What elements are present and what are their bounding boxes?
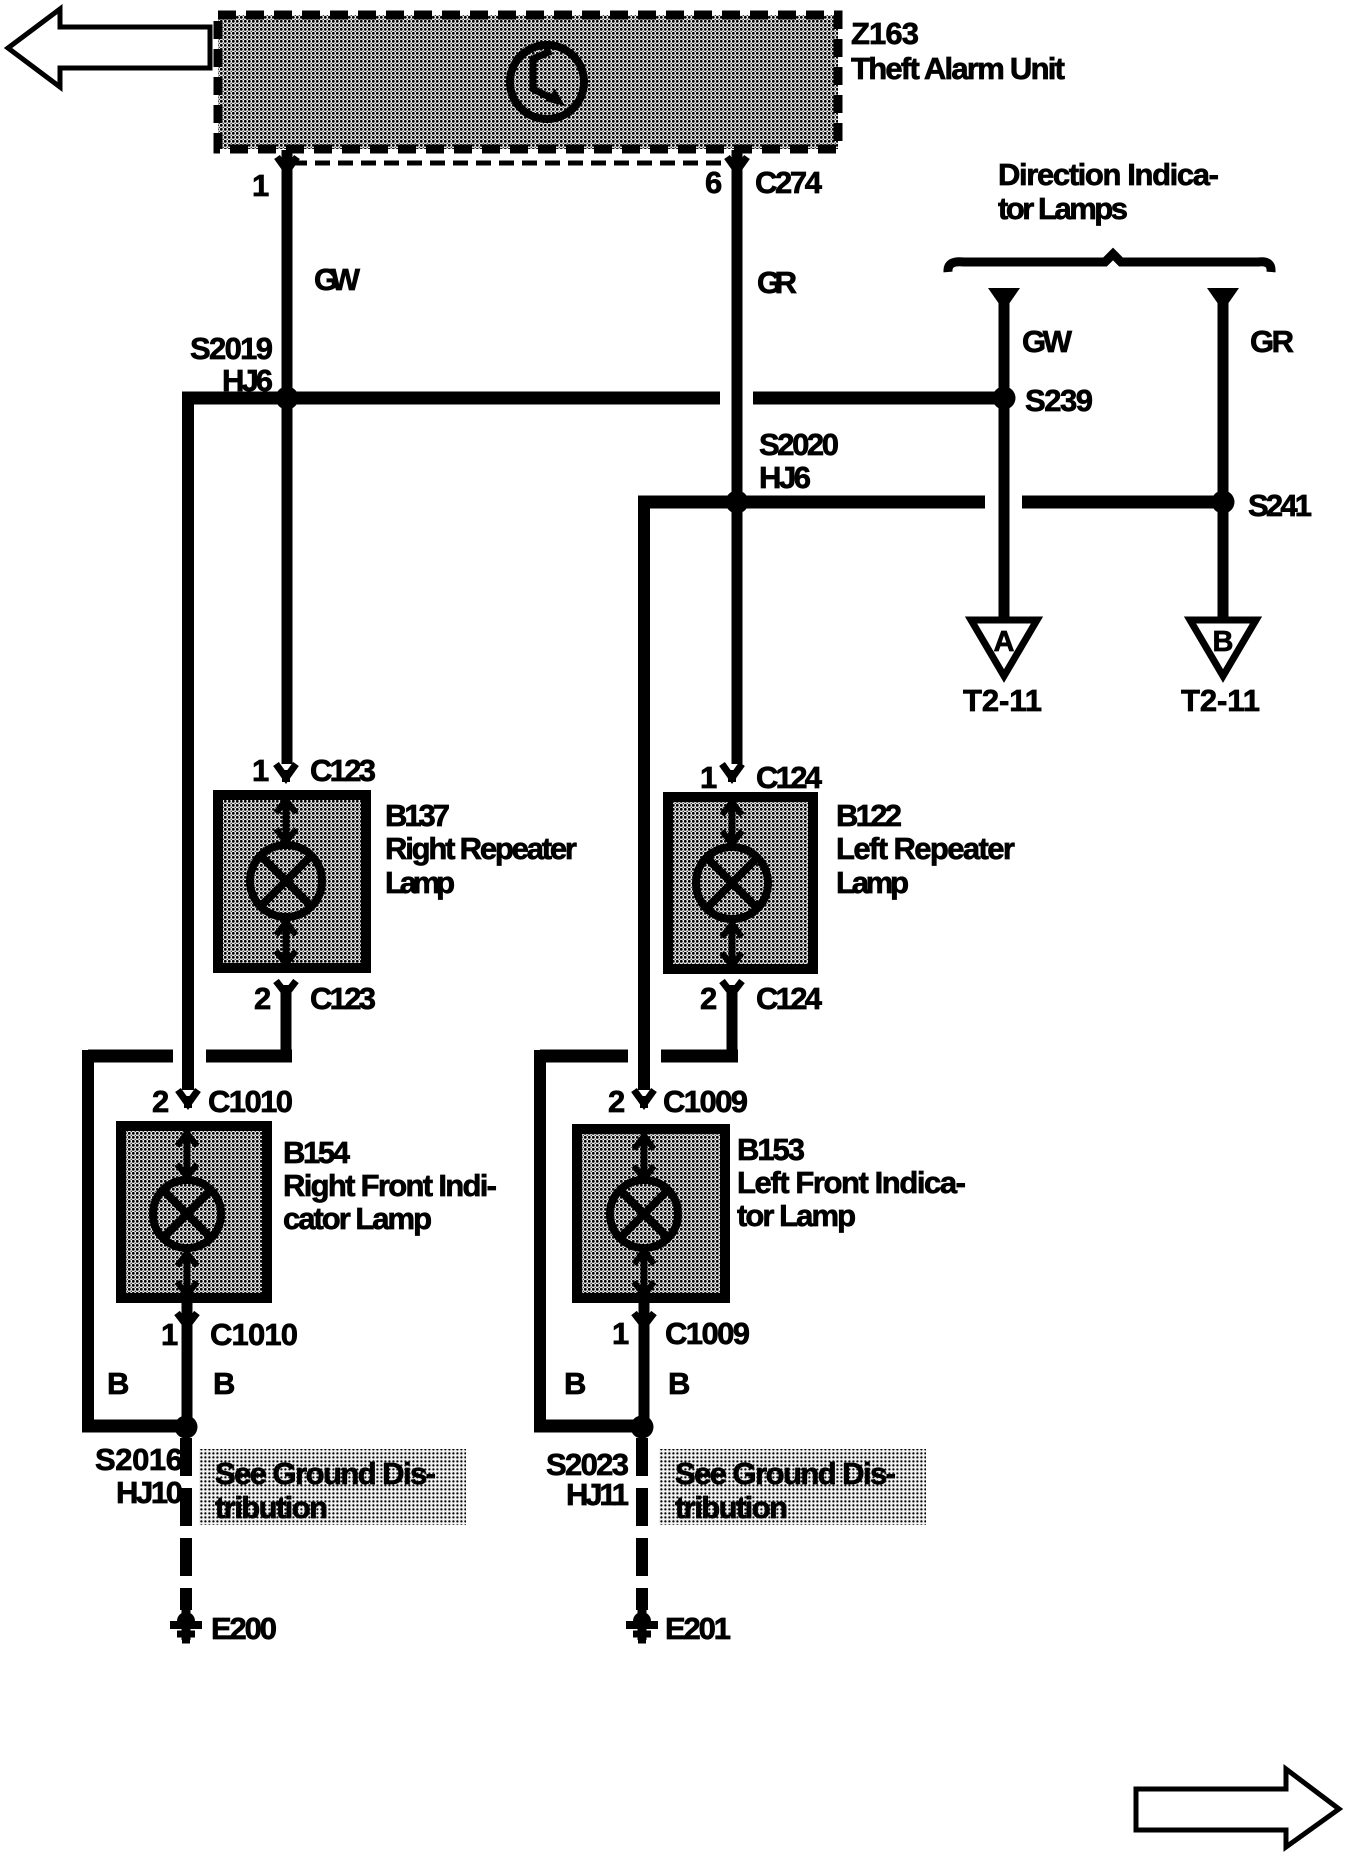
svg-text:Lamp: Lamp [836, 865, 909, 900]
svg-text:B: B [1213, 626, 1234, 658]
svg-text:Left Front Indica-: Left Front Indica- [737, 1165, 966, 1200]
svg-text:See Ground Dis-: See Ground Dis- [675, 1456, 896, 1491]
flasher symbol U (circle) inside Z163 [510, 45, 584, 119]
svg-text:GW: GW [1022, 324, 1073, 359]
B154 internal lead bottom [184, 1248, 191, 1298]
connector T2-11 A triangle [971, 620, 1037, 676]
lamp B154 box [121, 1126, 267, 1298]
connector C1009 pin 1 fork [634, 1313, 654, 1326]
svg-text:1: 1 [252, 168, 269, 203]
svg-text:B: B [213, 1366, 235, 1401]
svg-text:E201: E201 [665, 1611, 731, 1646]
B154 internal lead top [184, 1126, 191, 1180]
feed arrowhead GW (right) [988, 288, 1020, 311]
svg-text:1: 1 [252, 753, 269, 788]
connector C124 pin 1 end chevron [722, 764, 742, 778]
wire B122 return drop [534, 1050, 546, 1426]
wire splice run S2019 to S239 (left segment) [182, 392, 720, 405]
wire B137 return run left (right segment) [206, 1050, 292, 1063]
B122 internal lead bottom [729, 919, 736, 969]
svg-text:S2016: S2016 [95, 1442, 183, 1477]
dashed wire HJ10 to ground [180, 1438, 192, 1610]
wire from B153 pin 1 to S2023 [639, 1298, 650, 1426]
B137 internal lead bottom [283, 917, 290, 968]
svg-text:C274: C274 [755, 165, 823, 200]
connector C274 pin 1 fork [277, 157, 297, 171]
svg-text:cator Lamp: cator Lamp [283, 1201, 432, 1236]
ground E201 symbol [633, 1612, 651, 1630]
svg-text:1: 1 [700, 760, 717, 795]
svg-text:GR: GR [757, 265, 797, 300]
ground E200 symbol [177, 1612, 195, 1630]
svg-text:C124: C124 [756, 760, 823, 795]
svg-text:C1009: C1009 [665, 1316, 750, 1351]
svg-text:C1010: C1010 [208, 1084, 293, 1119]
connector C274 pin 6 fork [727, 157, 747, 171]
wire GW from Z163 pin 1 [282, 150, 293, 764]
splice S2019 junction dot [276, 387, 299, 410]
svg-text:Z163: Z163 [851, 16, 919, 51]
wire GR from Z163 pin 6 [732, 150, 743, 764]
B137 bulb symbol [250, 845, 322, 917]
wire drop from S2019 to B154 pin 2 [182, 392, 194, 1090]
lamp B153 box [577, 1129, 725, 1298]
B122 internal lead top [729, 797, 736, 847]
feed arrowhead GR (right) [1207, 288, 1239, 311]
svg-text:2: 2 [700, 981, 717, 1016]
svg-text:2: 2 [608, 1084, 625, 1119]
see ground distribution note (right) [659, 1449, 926, 1525]
svg-text:E200: E200 [211, 1611, 277, 1646]
svg-text:B: B [668, 1366, 690, 1401]
theft alarm unit Z163 dashed box [218, 15, 838, 149]
wire drop from S2020 to B153 pin 2 [638, 496, 650, 1090]
svg-text:B154: B154 [283, 1135, 351, 1170]
connector T2-11 B triangle [1190, 620, 1256, 676]
svg-text:B137: B137 [385, 798, 450, 833]
svg-text:S2020: S2020 [759, 427, 839, 462]
svg-text:Theft Alarm Unit: Theft Alarm Unit [851, 51, 1065, 86]
svg-text:1: 1 [612, 1316, 629, 1351]
svg-text:S2019: S2019 [190, 331, 273, 366]
wire B122 return bottom run to S2023 [534, 1420, 641, 1433]
svg-text:Right Front Indi-: Right Front Indi- [283, 1168, 497, 1203]
svg-text:C123: C123 [310, 981, 376, 1016]
svg-text:tor Lamps: tor Lamps [998, 191, 1128, 226]
connector C123 pin 1 end chevron [276, 764, 296, 778]
splice S2016 junction dot [175, 1416, 198, 1439]
see ground distribution note (left) [199, 1449, 466, 1525]
dashed wire HJ11 to ground [636, 1438, 648, 1610]
svg-text:HJ6: HJ6 [759, 460, 811, 495]
B153 internal lead bottom [641, 1246, 648, 1298]
svg-text:B122: B122 [836, 798, 902, 833]
svg-text:6: 6 [705, 165, 722, 200]
svg-text:C1010: C1010 [210, 1317, 298, 1352]
svg-text:Direction Indica-: Direction Indica- [998, 157, 1219, 192]
lamp B122 box [668, 797, 813, 969]
wire from B122 pin 2 [727, 985, 738, 1056]
svg-text:T2-11: T2-11 [1181, 683, 1260, 718]
wire GW right branch [999, 300, 1010, 622]
wire B137 return bottom run to S2016 [82, 1420, 186, 1433]
wire splice run S2019 to S239 (right segment past GR crossover) [753, 392, 1004, 405]
splice S241 junction dot [1212, 491, 1235, 514]
wire GR right branch [1218, 300, 1229, 622]
svg-text:HJ11: HJ11 [566, 1477, 629, 1512]
svg-text:Left Repeater: Left Repeater [836, 831, 1015, 866]
svg-text:C1009: C1009 [663, 1084, 748, 1119]
svg-text:tribution: tribution [215, 1490, 328, 1525]
svg-text:T2-11: T2-11 [963, 683, 1042, 718]
B154 bulb symbol [153, 1180, 221, 1248]
svg-text:S239: S239 [1025, 383, 1093, 418]
connector C123 pin 2 fork [276, 981, 296, 994]
svg-text:1: 1 [161, 1317, 178, 1352]
wire splice run S2020 to S241 (right segment past GW crossover) [1022, 496, 1223, 509]
svg-text:B: B [564, 1366, 586, 1401]
svg-text:B: B [107, 1366, 129, 1401]
wire from B154 pin 1 to S2016 [182, 1298, 193, 1426]
svg-text:tribution: tribution [675, 1490, 788, 1525]
splice S2023 junction dot [631, 1416, 654, 1439]
splice S239 junction dot [993, 387, 1016, 410]
svg-text:2: 2 [152, 1084, 169, 1119]
svg-text:C123: C123 [310, 753, 376, 788]
wire B137 return run left (left segment past crossover) [88, 1050, 173, 1063]
B122 bulb symbol [696, 847, 768, 919]
svg-text:HJ10: HJ10 [116, 1475, 183, 1510]
B137 internal lead top [283, 795, 290, 845]
svg-text:Lamp: Lamp [385, 865, 455, 900]
svg-text:tor Lamp: tor Lamp [737, 1198, 856, 1233]
svg-text:See Ground Dis-: See Ground Dis- [215, 1456, 436, 1491]
connector C1009 pin 2 chevron [634, 1090, 654, 1104]
dashed pin tie line under Z163 [292, 161, 734, 166]
wire B122 return run left (left segment past crossover) [540, 1050, 628, 1063]
splice S2020 junction dot [726, 491, 749, 514]
svg-text:A: A [994, 626, 1015, 658]
B153 internal lead top [641, 1129, 648, 1182]
wire B137 return drop at far left [82, 1050, 94, 1426]
connector C1010 pin 2 chevron [178, 1090, 198, 1104]
connector C124 pin 2 fork [722, 981, 742, 994]
svg-text:2: 2 [254, 981, 271, 1016]
svg-text:GR: GR [1250, 324, 1294, 359]
off-page arrow left [8, 9, 210, 87]
wire splice run S2020 to S241 (left segment) [638, 496, 985, 509]
svg-text:B153: B153 [737, 1132, 805, 1167]
brace over direction indicator feed wires [948, 254, 1271, 272]
B153 bulb symbol [610, 1180, 678, 1248]
svg-text:GW: GW [314, 262, 361, 297]
svg-text:S241: S241 [1248, 488, 1312, 523]
wire from B137 pin 2 [281, 985, 292, 1056]
connector C1010 pin 1 fork [177, 1313, 197, 1326]
svg-text:C124: C124 [756, 981, 823, 1016]
lamp B137 box [218, 795, 366, 968]
off-page arrow right [1136, 1769, 1339, 1847]
svg-text:Right Repeater: Right Repeater [385, 831, 577, 866]
wire B122 return run left (right segment) [661, 1050, 738, 1063]
